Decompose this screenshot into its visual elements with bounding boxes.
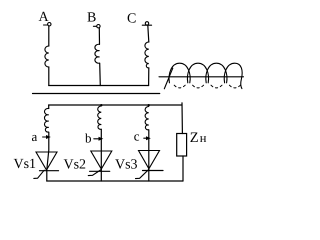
thyristor VS1 triangle (36, 152, 57, 170)
svg-text:B: B (87, 11, 96, 26)
winding turn 1 (169, 63, 190, 83)
thyristor VS1 cathode bar (40, 170, 59, 172)
wire C to bus (148, 68, 150, 86)
branch a: wire from bus (48, 105, 50, 109)
wire load to bottom bus (182, 156, 184, 181)
svg-text:a: a (32, 129, 38, 144)
thyristor VS3 gate (136, 169, 149, 178)
wire bus to load (181, 103, 183, 134)
core line (159, 76, 244, 78)
winding turn 4 and lead-out (224, 63, 242, 88)
svg-text:c: c (134, 128, 140, 143)
wire b to thyristor (100, 130, 102, 182)
thyristor VS2 triangle (91, 151, 112, 169)
thyristor VS3 triangle (139, 151, 160, 169)
thyristor VS2 gate (88, 170, 101, 176)
terminal A (44, 24, 48, 26)
svg-text:Vs2: Vs2 (64, 157, 87, 172)
wire phase B top (98, 28, 100, 44)
inductor winding A (45, 46, 49, 67)
svg-text:н: н (200, 131, 207, 145)
svg-text:Vs1: Vs1 (14, 157, 37, 172)
tap a arrow (43, 136, 47, 138)
separator line (machine line) (33, 93, 160, 95)
dc bus bottom (47, 180, 183, 182)
winding dashed back turns (174, 85, 185, 88)
inductor winding B (95, 44, 100, 63)
tap c arrow (144, 137, 147, 139)
junction b (100, 104, 102, 106)
neutral bus wire (49, 85, 149, 87)
svg-text:Z: Z (190, 130, 199, 146)
winding lead-in (164, 68, 173, 89)
winding on core (output winding) (159, 63, 244, 89)
dc bus top (49, 104, 182, 106)
wire phase C top (148, 25, 149, 42)
inductor winding b (98, 106, 102, 129)
wire B to bus (99, 63, 102, 85)
thyristor VS2 cathode bar (90, 170, 110, 172)
inductor winding c (145, 107, 149, 130)
wire phase A top (48, 26, 50, 46)
svg-text:b: b (85, 130, 92, 145)
wire c to thyristor (148, 130, 150, 181)
terminal C (142, 24, 151, 26)
thyristor VS3 cathode bar (143, 170, 164, 172)
winding turn 2 (187, 63, 208, 83)
terminal B (93, 25, 96, 27)
svg-text:Vs3: Vs3 (115, 158, 138, 173)
svg-text:C: C (127, 12, 136, 27)
winding turn 3 (206, 63, 227, 83)
load Zn rectangle (177, 134, 187, 157)
inductor winding C (145, 42, 149, 68)
tap b arrow (94, 138, 99, 140)
thyristor VS1 gate (34, 170, 44, 178)
wire A to bus (48, 67, 50, 86)
inductor winding a (44, 108, 48, 132)
junction c (148, 104, 150, 106)
wire a to thyristor (47, 133, 49, 182)
